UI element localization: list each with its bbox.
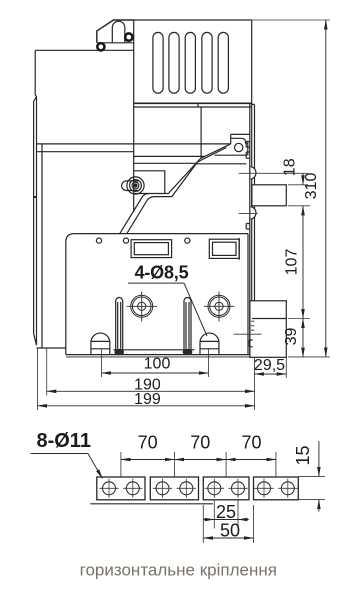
bar hole 8 <box>281 482 294 495</box>
dim 50 <box>203 537 253 539</box>
right flange lines <box>250 103 255 354</box>
ext lines 190/199 <box>38 349 255 411</box>
front edge vertical with bottom arc <box>133 20 135 212</box>
svg-text:8-Ø11: 8-Ø11 <box>36 430 90 452</box>
diagonal D1 with ledge <box>120 144 231 234</box>
svg-text:310: 310 <box>303 173 320 200</box>
stadium lever <box>122 181 139 191</box>
dim 70 a <box>121 459 174 461</box>
cylinder base ellipse 1 <box>115 349 124 354</box>
bar hole 2 <box>126 482 139 495</box>
body top edge <box>134 19 252 21</box>
label leader with arrow <box>31 454 103 479</box>
handle screw right <box>125 33 132 40</box>
hole crosshair circle right <box>204 292 235 322</box>
plate tick <box>34 196 37 198</box>
svg-text:100: 100 <box>144 356 171 373</box>
dim 107 <box>302 206 304 319</box>
left clamp pad <box>131 240 172 258</box>
pivot bump lower <box>251 207 256 220</box>
cylinder base line <box>114 349 195 351</box>
vent slot 1 <box>153 32 163 93</box>
svg-text:199: 199 <box>134 391 161 408</box>
lower terminal block <box>250 301 286 358</box>
svg-text:70: 70 <box>241 433 261 453</box>
mounting stud 2 <box>200 333 219 355</box>
ext lines 25 dim <box>214 500 238 529</box>
svg-text:29,5: 29,5 <box>254 357 285 374</box>
ext lines 70 dims <box>121 452 325 543</box>
hole crosshair circle left <box>127 292 158 322</box>
back divider line <box>41 144 43 348</box>
ext line 29,5 right <box>285 358 287 379</box>
base plate hole 2 <box>123 238 128 243</box>
vent slot 5 <box>218 32 228 93</box>
ext lines right side dims <box>233 173 330 357</box>
right clamp pad <box>209 239 239 258</box>
svg-text:горизонтальне кріплення: горизонтальне кріплення <box>80 561 277 580</box>
dim 39 <box>302 319 304 358</box>
extension lines <box>38 173 331 410</box>
dim 199 <box>38 405 255 407</box>
mounting plate <box>34 95 37 346</box>
bar plate 3 <box>203 477 249 500</box>
vent slot 4 <box>202 32 212 93</box>
mounting stud 1 <box>91 333 110 355</box>
ear top lines <box>231 134 250 155</box>
svg-text:50: 50 <box>220 521 240 541</box>
svg-text:70: 70 <box>138 433 158 453</box>
dim 310 <box>325 20 327 357</box>
vent slot 3 <box>185 32 195 93</box>
lower terminal divider <box>252 318 286 320</box>
bar hole 7 <box>258 482 271 495</box>
svg-text:4-Ø8,5: 4-Ø8,5 <box>135 262 189 282</box>
svg-text:25: 25 <box>216 502 236 522</box>
bar hole 1 <box>103 482 116 495</box>
foot step <box>37 347 66 349</box>
dim 70 b <box>174 459 226 461</box>
bottom tab <box>249 340 252 347</box>
bar plate 1 <box>97 477 145 500</box>
ground line <box>66 356 286 358</box>
handle block outline <box>97 20 134 43</box>
ear bottom <box>196 155 247 164</box>
svg-text:70: 70 <box>190 433 210 453</box>
bar plate 2 <box>150 477 198 500</box>
upper terminal tab <box>252 185 286 206</box>
dim 70 c <box>226 459 276 461</box>
handle band top <box>97 42 134 44</box>
hole crosshairs <box>99 479 297 498</box>
base plate hole 1 <box>96 238 101 243</box>
base plate hole 3 <box>185 238 190 243</box>
bar holes <box>103 482 295 495</box>
svg-text:39: 39 <box>283 328 300 346</box>
dim 25 line and tails <box>214 519 238 521</box>
mid horizontal double lines <box>37 144 231 152</box>
flange teeth <box>246 142 250 230</box>
dimension lines with arrows <box>38 20 326 406</box>
dim 190 <box>47 390 255 392</box>
ext lines 50 dim <box>203 505 253 543</box>
ear hole <box>235 143 243 151</box>
ext lines 15 dim <box>298 476 325 499</box>
wall serration ticks <box>251 321 254 330</box>
lever pivot rings <box>127 177 144 194</box>
svg-text:107: 107 <box>284 249 301 276</box>
top edge extension <box>252 19 330 21</box>
bar hole 3 <box>156 482 169 495</box>
svg-text:18: 18 <box>282 158 299 176</box>
dim 29,5 <box>255 373 287 375</box>
left block top edge and band bottom <box>35 49 134 51</box>
accessory box <box>134 171 165 194</box>
base plate rounded corner <box>66 234 75 355</box>
svg-text:15: 15 <box>293 445 313 465</box>
mid shelf lines <box>134 156 206 163</box>
vent slot 2 <box>169 32 179 93</box>
inner divider <box>200 107 202 159</box>
body right edge <box>251 20 253 355</box>
diagonal D2 <box>127 148 227 234</box>
ear left edge <box>230 134 232 144</box>
thin cylinder 2 <box>184 298 191 350</box>
right wall lines <box>239 234 248 355</box>
handle dome <box>112 21 125 43</box>
dim 18 tails <box>302 173 304 185</box>
cylinder base ellipse 2 <box>183 349 192 354</box>
dim 15 tails <box>318 441 320 476</box>
left block left edge <box>34 50 36 94</box>
ext lines 100 <box>102 349 209 377</box>
bar hole 4 <box>180 482 193 495</box>
base plate top edge <box>74 233 248 235</box>
handle screw left <box>97 43 104 50</box>
thin cylinder 1 <box>116 298 123 350</box>
body bottom edge <box>66 354 252 356</box>
label leader <box>128 283 207 336</box>
slot section bottom lines <box>134 102 252 104</box>
surface line under bar <box>90 503 213 505</box>
dim 100 <box>102 372 209 374</box>
bar hole 6 <box>232 482 245 495</box>
bar plate 4 <box>254 477 299 500</box>
pivot bump upper <box>251 167 256 180</box>
bar hole 5 <box>208 482 221 495</box>
